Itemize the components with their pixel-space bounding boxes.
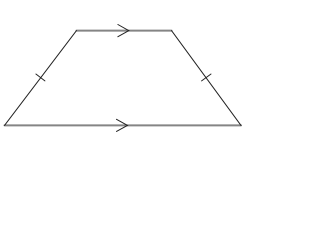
bottom parallel side <box>5 124 242 126</box>
left leg tick mark <box>36 74 45 81</box>
left leg <box>5 31 77 126</box>
right leg <box>172 31 242 126</box>
geometry diagram: isosceles trapezium with parallel-side arrows and equal-leg tick marks <box>0 0 253 145</box>
top parallel side <box>77 30 172 32</box>
right leg tick mark <box>202 74 211 81</box>
bottom side arrow mark <box>117 119 128 131</box>
top side arrow mark <box>118 25 129 37</box>
